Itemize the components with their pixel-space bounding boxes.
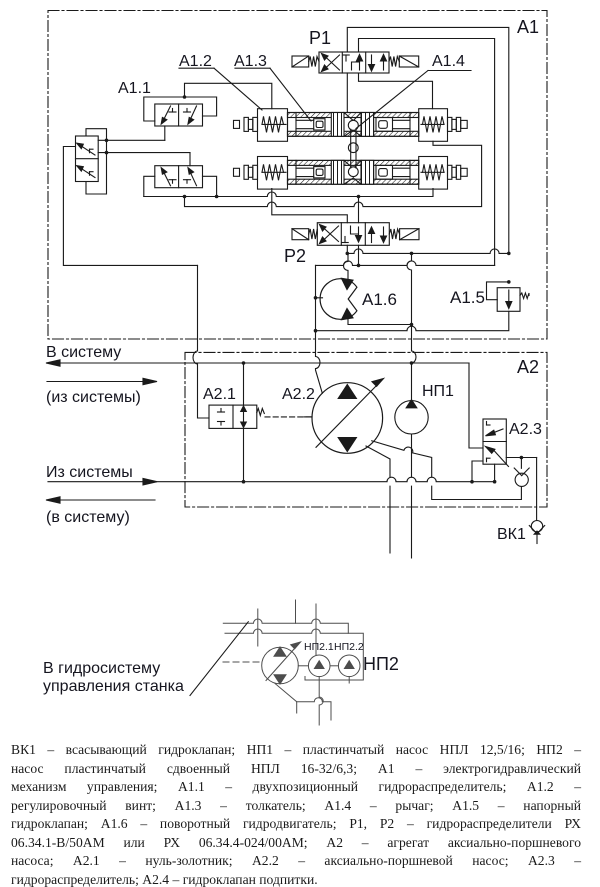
check valve BK1 <box>529 521 544 544</box>
spool lower right end ribs <box>448 165 468 179</box>
valve A2.3 <box>483 419 509 467</box>
wire BK1 bus down <box>536 458 538 521</box>
valve A1.5 relief valve <box>487 252 530 312</box>
spool section upper: body with hatched bands <box>288 113 419 137</box>
svg-text:НП2.1: НП2.1 <box>304 641 334 653</box>
svg-text:A1: A1 <box>517 17 539 37</box>
wire A1.1 main valve surrounding loop <box>86 129 108 194</box>
tank suction schematic top rail 2 <box>225 629 363 680</box>
svg-text:(из системы): (из системы) <box>46 389 141 406</box>
valve P1 body <box>319 52 389 73</box>
wire motor A1.6 bottom port rail <box>348 319 413 327</box>
wire P1 bottom left to spool body <box>346 73 348 113</box>
wire P2 pilot left from lower spring box <box>272 189 348 223</box>
spool upper left adjusting screw ribs <box>234 117 258 131</box>
svg-text:НП1: НП1 <box>422 383 454 400</box>
svg-text:A2: A2 <box>517 357 539 377</box>
label leader A1.4 <box>356 71 471 129</box>
valve P1 right section arrows <box>369 55 387 72</box>
pump НП2.2 circle <box>338 655 360 677</box>
tank suction schematic top rail 1 <box>223 619 348 633</box>
valve P1 right solenoid <box>389 56 419 67</box>
wire left bus down to A2.1 with jog <box>193 265 209 418</box>
spool upper left spring box A1.2 area <box>258 109 288 142</box>
wire P2 bottom left port down <box>346 245 348 253</box>
wire A2.1 pilot dashed to pump <box>265 416 311 418</box>
caption paragraph <box>11 741 581 887</box>
wire A1.1 lower valve top port <box>189 153 191 166</box>
wire A1.1 upper valve top bracket <box>144 95 217 121</box>
svg-text:А1.5: А1.5 <box>450 288 485 307</box>
wire HP1 bottom port down <box>411 434 413 558</box>
valve A1.1 lower pilot valve body <box>155 166 203 188</box>
svg-text:НП2.2: НП2.2 <box>334 641 364 653</box>
wire P2 pilot right from drain rail <box>358 197 360 223</box>
svg-text:А1.4: А1.4 <box>432 53 465 70</box>
svg-text:P2: P2 <box>284 246 306 266</box>
valve P2 left section crossed arrows <box>320 225 339 244</box>
frame A1 boundary <box>48 11 547 340</box>
svg-text:А2.1: А2.1 <box>203 386 236 403</box>
lever linkage circles between spools <box>348 120 358 176</box>
wire mini pump pilot dashed <box>223 661 261 663</box>
wire rail from A1.5 bottom <box>316 311 509 330</box>
svg-text:(в систему): (в систему) <box>46 509 130 526</box>
wire line "(в систему)" with left arrow <box>46 497 155 503</box>
leader line to hydro system note <box>190 622 248 696</box>
tank suction schematic riser stubs <box>257 609 259 646</box>
pump НП2.1 circle <box>308 655 330 677</box>
wire P1 bottom right to right spring box <box>359 73 433 109</box>
svg-text:А1.6: А1.6 <box>362 290 397 309</box>
wire A1.1 lower valve bottom bracket to drain rail <box>144 176 219 198</box>
svg-text:А2.3: А2.3 <box>509 421 542 438</box>
svg-text:В систему: В систему <box>46 344 121 361</box>
wire A1.1 upper valve bottom port <box>164 126 166 140</box>
wire pump A2.2 branch to check valve loop <box>372 441 522 500</box>
svg-text:А1.3: А1.3 <box>234 53 267 70</box>
valve P2 middle section symbols <box>342 226 362 243</box>
wire A2.3 right port to BK1 bus <box>506 456 536 460</box>
wire A2.3 bottom port <box>494 464 496 482</box>
label leader A1.3 <box>235 68 311 121</box>
wire A2.1 bottom port <box>243 428 245 481</box>
valve P1 middle section symbols <box>343 55 363 71</box>
wire motor A1.6 top port <box>344 253 349 278</box>
frame A2 boundary <box>185 352 547 507</box>
svg-text:управления станка: управления станка <box>43 678 184 695</box>
pump A2.2 axial piston pump <box>312 379 384 454</box>
svg-text:НП2: НП2 <box>363 654 399 674</box>
svg-text:Из системы: Из системы <box>46 464 133 481</box>
valve A1.1 upper pilot valve body <box>155 104 203 126</box>
wire A1.1 upper pilot to left spring box <box>185 83 272 108</box>
wire line "(из системы)" with right arrow <box>47 378 157 384</box>
spool upper right spring box <box>419 109 448 142</box>
wire line "Из системы" with right arrow <box>48 477 496 485</box>
wire A2.3 top left port from В-систему <box>412 363 484 448</box>
wire P2 bottom right port down <box>358 245 360 265</box>
wire line "В систему" with left arrow <box>46 360 469 366</box>
check valve A2.4 <box>514 458 529 487</box>
svg-text:А2.2: А2.2 <box>282 386 315 403</box>
valve P2 left solenoid <box>292 229 317 240</box>
spool section lower: body with hatched bands <box>288 160 419 184</box>
wire rail A below P2 <box>346 249 509 255</box>
wire pump interconnections <box>298 665 308 667</box>
valve A1.1 main vertical valve body <box>76 136 99 182</box>
pump HP1 vane pump <box>395 400 428 434</box>
wire motor A1.6 left port <box>314 296 323 300</box>
valve P2 right solenoid <box>389 229 419 240</box>
spool lower right spring box <box>419 157 448 190</box>
label leader A1.2 <box>179 68 262 110</box>
wire pump A2.2 left port <box>304 416 312 418</box>
svg-text:А1.2: А1.2 <box>179 53 212 70</box>
wire mini schematic drains <box>275 684 297 714</box>
wire P1 port B to inner right bus <box>359 39 495 266</box>
spool lower left spring box <box>258 157 288 190</box>
wire P1 port A to right bus <box>347 27 509 253</box>
svg-text:А1.1: А1.1 <box>118 80 151 97</box>
wire drain rail 1 under spools <box>144 189 433 199</box>
wire A1.1 port to upper pilot valve <box>98 139 165 141</box>
wire A2.1 top port <box>243 363 245 405</box>
valve A2.1 null spool <box>209 405 264 428</box>
wire rail B tank line <box>316 261 495 267</box>
svg-text:В гидросистему: В гидросистему <box>43 660 160 677</box>
valve P2 body <box>317 223 389 246</box>
spool upper right end ribs <box>448 117 468 131</box>
svg-text:P1: P1 <box>309 28 331 48</box>
wire A2.3 bottom left port <box>472 461 483 482</box>
wire drain rail 2 under spools <box>185 141 482 206</box>
wire pump A2.2 drain diagonal to tank <box>366 446 390 553</box>
wire A1.1 port to lower pilot valve <box>98 152 190 154</box>
motor A1.6 rotary actuator <box>320 278 357 319</box>
spool lower left adjusting screw ribs <box>234 165 258 179</box>
valve P1 left solenoid <box>292 56 319 67</box>
valve P1 left section crossed arrows <box>322 54 340 72</box>
wire bus x411 from rail A down to pump HP1 <box>407 253 416 400</box>
pump НП2 main circle <box>262 642 301 684</box>
valve P2 right section arrows <box>369 227 387 243</box>
wire A1.1 left port down the left side <box>63 147 197 266</box>
svg-text:ВК1: ВК1 <box>497 526 526 543</box>
wire left tank bus down to pump A2.2 <box>314 265 323 393</box>
